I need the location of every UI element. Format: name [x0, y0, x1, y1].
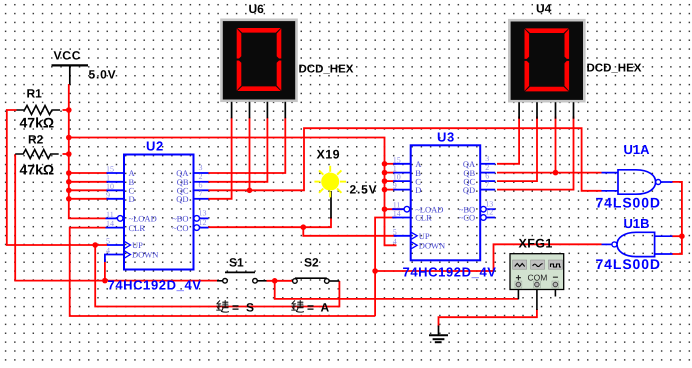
pin stub U2 right carry/borrow with bubble: [194, 225, 209, 231]
pin stub U2 UP (clock): [107, 242, 131, 249]
pin stub U3 right Q: [480, 172, 495, 174]
svg-text:CLR: CLR: [415, 213, 432, 223]
pin stub U3 DOWN (clock): [411, 242, 417, 249]
svg-text:12: 12: [485, 208, 493, 217]
svg-text:~CO: ~CO: [459, 213, 475, 223]
junction VCC/R2: [66, 151, 72, 157]
junction pin D: [66, 196, 72, 202]
pin stub U3 right Q: [480, 189, 495, 191]
pin stub U2 left: [107, 181, 125, 183]
pin stub U2 right Q: [194, 172, 209, 174]
svg-text:47kΩ: 47kΩ: [20, 162, 55, 178]
pin stub U2 right carry/borrow with bubble: [194, 216, 209, 222]
svg-text:11: 11: [106, 210, 114, 219]
wire U1A output to U1B input B: [672, 182, 682, 254]
svg-text:13: 13: [199, 209, 207, 218]
junction S1/S2/XFG: [272, 278, 278, 284]
svg-text:12: 12: [199, 218, 207, 227]
pin stub U2 right Q: [194, 198, 209, 200]
wire U2 QA to U6 pin 4: [208, 118, 285, 174]
svg-text:U1A: U1A: [624, 142, 651, 157]
wire VCC to U2 pin C: [69, 189, 107, 191]
svg-text:5: 5: [393, 227, 397, 236]
svg-text:14: 14: [106, 219, 114, 228]
svg-text:2.5V: 2.5V: [350, 183, 378, 197]
pin stub U3 ~LOAD with bubble: [392, 206, 410, 212]
junction pin C: [66, 188, 72, 194]
wire U1A output branch to U1B input A: [672, 235, 682, 237]
svg-text:5.0V: 5.0V: [89, 68, 117, 82]
pin stub U3 left: [393, 163, 411, 165]
wire carry net to U3 UP: [303, 227, 396, 236]
wire UP net to S2 right terminal: [95, 245, 339, 307]
pin stub U3 right carry/borrow with bubble: [481, 206, 496, 212]
junction U3 C: [382, 178, 388, 184]
power VCC symbol: [52, 65, 89, 84]
pin lead U6 #2: [249, 102, 251, 119]
wire to U3 pin D: [385, 189, 397, 191]
wire VCC to U2 pin A: [69, 172, 107, 174]
svg-text:47kΩ: 47kΩ: [20, 115, 55, 131]
wire U3 QD to U4 pin 4: [497, 117, 574, 190]
wire U2 QD to U6 pin 1: [208, 118, 231, 199]
svg-text:5: 5: [106, 237, 110, 246]
pin lead U4 #4: [573, 102, 575, 119]
junction U3 A: [382, 161, 388, 167]
svg-text:VCC: VCC: [54, 49, 82, 63]
wire key junction to XFG1 plus: [275, 281, 519, 299]
wire VCC to U2 pin D: [69, 198, 107, 200]
wire U2 QB to U6 pin 3: [208, 118, 267, 182]
svg-text:UP: UP: [132, 240, 143, 250]
pin lead U6 #3: [266, 102, 268, 119]
counter U2 74HC192D box: [124, 155, 194, 270]
wire to U3 ~LOAD: [385, 208, 403, 210]
wire XFG1 COM to ground: [439, 309, 537, 327]
pin numbers U2: [106, 163, 207, 255]
svg-text:R1: R1: [27, 87, 43, 101]
wire to U3 pin C: [385, 180, 397, 182]
op-amp U1B NAND gate 74LS00D mirrored: [602, 232, 673, 256]
junction VCC rail: [66, 135, 72, 141]
wire U3 QB to U1A input A: [497, 172, 602, 174]
junction VCC/R1: [66, 107, 72, 113]
svg-text:A: A: [321, 301, 330, 315]
pin names U3: [415, 159, 476, 251]
junction U3 B: [382, 170, 388, 176]
junction UP net: [92, 242, 98, 248]
junction pin A: [66, 170, 72, 176]
wire U2 CLR to bottom rail: [70, 228, 375, 316]
counter U3 74HC192D box: [411, 145, 481, 260]
svg-text:S: S: [246, 301, 254, 315]
pin lead U4 #1: [518, 102, 520, 119]
wire R1 left to U2 UP: [7, 110, 107, 245]
switch S2 (closed): [293, 278, 340, 283]
svg-text:QD: QD: [176, 194, 188, 204]
svg-text:X19: X19: [317, 148, 340, 162]
wire U2 DOWN to R2/S1 net: [104, 259, 106, 281]
op-amp U1A NAND gate 74LS00D: [602, 170, 673, 194]
pin names U2: [129, 168, 190, 260]
pin stub U3 right carry/borrow with bubble: [481, 215, 496, 221]
svg-text:U2: U2: [146, 139, 164, 154]
wire U6 pin 2 drop: [249, 118, 251, 191]
wire U2 ~CO to lamp X19: [208, 217, 331, 227]
svg-text:4: 4: [393, 237, 397, 246]
svg-text:74HC192D_4V: 74HC192D_4V: [403, 265, 497, 280]
svg-text:4: 4: [106, 246, 110, 255]
svg-text:=: =: [232, 301, 239, 315]
junction pin B: [66, 179, 72, 185]
pin stub U2 right Q: [194, 189, 209, 191]
label glyph jian of key=S: [217, 301, 229, 313]
pin stub U3 right Q: [480, 180, 495, 182]
svg-text:74LS00D: 74LS00D: [596, 195, 661, 211]
seven-segment display U6: [222, 20, 297, 101]
svg-text:3: 3: [485, 154, 489, 163]
svg-text:14: 14: [393, 209, 401, 218]
resistor R1: [17, 106, 61, 115]
svg-text:9: 9: [106, 190, 110, 199]
junction U3 ~LOAD: [382, 206, 388, 212]
wire to U3 pin A: [385, 163, 397, 165]
pin stub U3 left: [393, 189, 411, 191]
svg-text:15: 15: [106, 165, 114, 174]
svg-text:DCD_HEX: DCD_HEX: [587, 63, 642, 75]
label glyph jian of key=A: [292, 301, 304, 313]
wire U4 pin 3 drop to QB net: [555, 117, 557, 173]
switch S1 (open): [217, 272, 267, 283]
pin stub U3 right Q: [480, 163, 495, 165]
svg-text:D: D: [129, 194, 135, 204]
svg-text:15: 15: [393, 155, 401, 164]
pin stub U3 left: [393, 172, 411, 174]
svg-text:QD: QD: [463, 185, 475, 195]
pin stub U3 CLR: [392, 217, 411, 219]
wire R1 right lead to VCC node: [63, 109, 69, 111]
pin stub U2 left: [107, 172, 125, 174]
function generator XFG1: [510, 254, 564, 290]
wire S1 right to S2 left: [267, 280, 294, 282]
junction DOWN net: [102, 278, 108, 284]
svg-text:XFG1: XFG1: [519, 237, 553, 251]
svg-text:U1B: U1B: [624, 216, 650, 231]
svg-text:S1: S1: [229, 256, 244, 270]
svg-text:DOWN: DOWN: [132, 250, 158, 260]
pin lead U6 #4: [284, 102, 286, 119]
svg-text:~CO: ~CO: [172, 223, 188, 233]
wire U2 DOWN stub corner: [105, 255, 125, 263]
wire U1B output to reset rail: [375, 244, 601, 271]
svg-text:74LS00D: 74LS00D: [596, 256, 661, 272]
pin stub U3 UP (clock): [394, 232, 418, 239]
junction QC/U6 pin2: [247, 188, 253, 194]
svg-text:7: 7: [485, 180, 489, 189]
svg-text:9: 9: [393, 181, 397, 190]
wire bottom rail up to U3 CLR: [375, 218, 396, 317]
pin lead XFG1 minus: [554, 290, 556, 297]
wire U2 QC to U6 pin2 branch and U1A input B: [208, 128, 601, 191]
pin stub U2 ~LOAD with bubble: [106, 216, 123, 222]
pin numbers U3: [393, 154, 494, 246]
svg-text:7: 7: [199, 189, 203, 198]
junction carry/lamp: [301, 224, 307, 230]
svg-text:UP: UP: [419, 231, 430, 241]
wire U3 QC to U4 pin 2: [497, 117, 537, 182]
seven-segment display U4: [509, 20, 584, 101]
junction U3 D: [382, 187, 388, 193]
wire U3 QA to U4 pin 1: [497, 117, 519, 164]
svg-text:U3: U3: [437, 130, 455, 145]
svg-text:D: D: [415, 185, 421, 195]
wire R2 left to S1 left terminal: [15, 154, 217, 281]
svg-text:DCD_HEX: DCD_HEX: [299, 64, 354, 76]
pin lead U6 #1: [231, 102, 233, 119]
lamp X19 lead: [330, 191, 332, 219]
svg-text:U6: U6: [249, 2, 265, 16]
wire VCC vertical to U2 ~LOAD: [69, 84, 106, 218]
lamp X19: [314, 166, 346, 198]
pin lead XFG1 COM: [536, 290, 538, 311]
resistor R2: [15, 150, 59, 159]
svg-text:74HC192D_4V: 74HC192D_4V: [108, 278, 202, 293]
svg-text:S2: S2: [304, 256, 319, 270]
junction reset rail: [372, 268, 378, 274]
pin lead U4 #3: [555, 102, 557, 119]
pin lead U4 #2: [536, 102, 538, 119]
svg-text:DOWN: DOWN: [419, 241, 445, 251]
svg-text:=: =: [307, 301, 314, 315]
pin stub U2 CLR: [106, 227, 125, 229]
junction U1A out/U1B inputs: [679, 233, 685, 239]
wire VCC rail to U3 preset pins / DOWN: [69, 138, 397, 246]
wire R2 right lead to VCC node: [63, 153, 69, 155]
pin stub U2 DOWN (clock): [125, 251, 131, 258]
svg-text:U4: U4: [536, 2, 552, 16]
pin stub U3 left: [393, 180, 411, 182]
ground: [429, 326, 448, 343]
junction QB/U4 pin3: [553, 170, 559, 176]
wire to U3 pin B: [385, 172, 397, 174]
wire VCC to U2 pin B: [69, 181, 107, 183]
pin stub U2 left: [107, 189, 125, 191]
svg-text:R2: R2: [28, 133, 44, 147]
pin lead XFG1 +: [517, 290, 519, 300]
svg-text:3: 3: [199, 163, 203, 172]
pin stub U2 right Q: [194, 181, 209, 183]
svg-text:CLR: CLR: [129, 223, 146, 233]
pin stub U2 left: [107, 198, 125, 200]
